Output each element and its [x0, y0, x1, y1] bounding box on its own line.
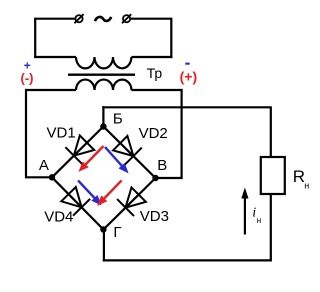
wire: bridge edge V-G (bottom-right)	[103, 178, 155, 230]
transformer primary winding	[76, 57, 131, 68]
node G junction dot	[100, 226, 106, 232]
transformer core	[68, 73, 135, 75]
svg-text:А: А	[39, 157, 49, 174]
node V junction dot	[152, 175, 158, 181]
diode VD1	[65, 136, 94, 165]
svg-text:VD4: VD4	[44, 209, 73, 226]
wire: top rail to load	[102, 107, 270, 157]
svg-text:Б: Б	[113, 111, 123, 128]
wire: bridge edge A-B (top-left)	[52, 127, 103, 178]
red current arrow (B to A)	[78, 146, 103, 172]
svg-text:В: В	[157, 157, 167, 174]
svg-text:Тр: Тр	[147, 65, 163, 81]
current arrow i_n	[244, 195, 246, 235]
blue current arrow (B to V)	[105, 147, 129, 173]
svg-text:Г: Г	[113, 224, 121, 241]
svg-text:н: н	[257, 216, 261, 225]
wire: primary right feed	[131, 56, 172, 58]
wire: secondary right feed	[131, 89, 181, 91]
svg-text:н: н	[304, 181, 309, 191]
wire: primary left feed	[34, 56, 76, 58]
red current arrow (V to G)	[97, 180, 122, 206]
transformer secondary winding	[76, 80, 131, 90]
wire: secondary right drop to node V	[156, 89, 182, 178]
wire: AC input loop left vertical	[34, 19, 36, 58]
svg-text:i: i	[252, 205, 256, 220]
svg-text:(-): (-)	[21, 71, 34, 86]
wire: AC loop top-left segment	[34, 18, 75, 20]
diode VD3	[117, 187, 146, 216]
blue current arrow (A to G)	[78, 180, 102, 205]
svg-text:VD3: VD3	[140, 208, 169, 225]
wire: AC loop top-right segment	[130, 18, 172, 20]
svg-text:VD2: VD2	[139, 125, 168, 142]
AC tilde symbol	[95, 17, 111, 21]
fuse terminal right (circle with slash)	[122, 14, 131, 23]
wire: secondary left feed	[26, 89, 76, 91]
fuse terminal left (circle with slash)	[74, 14, 83, 23]
wire: AC loop right vertical	[170, 19, 172, 58]
wire: riser from node B to top rail	[102, 106, 104, 126]
diode VD4	[61, 187, 90, 216]
wire: drop from node G	[103, 230, 105, 262]
polarity label minus (blue, right)	[185, 63, 189, 65]
svg-text:(+): (+)	[180, 68, 198, 84]
wire: bridge edge A-G (bottom-left)	[52, 177, 103, 229]
wire: secondary left drop to node A	[26, 89, 52, 177]
diode VD2	[113, 136, 142, 165]
wire: bridge edge B-V (top-right)	[103, 127, 155, 179]
resistor R_n (load)	[261, 157, 285, 194]
svg-text:VD1: VD1	[47, 125, 76, 142]
node B junction dot	[100, 123, 106, 129]
node A junction dot	[49, 174, 55, 180]
wire: bottom rail to load	[103, 194, 271, 261]
